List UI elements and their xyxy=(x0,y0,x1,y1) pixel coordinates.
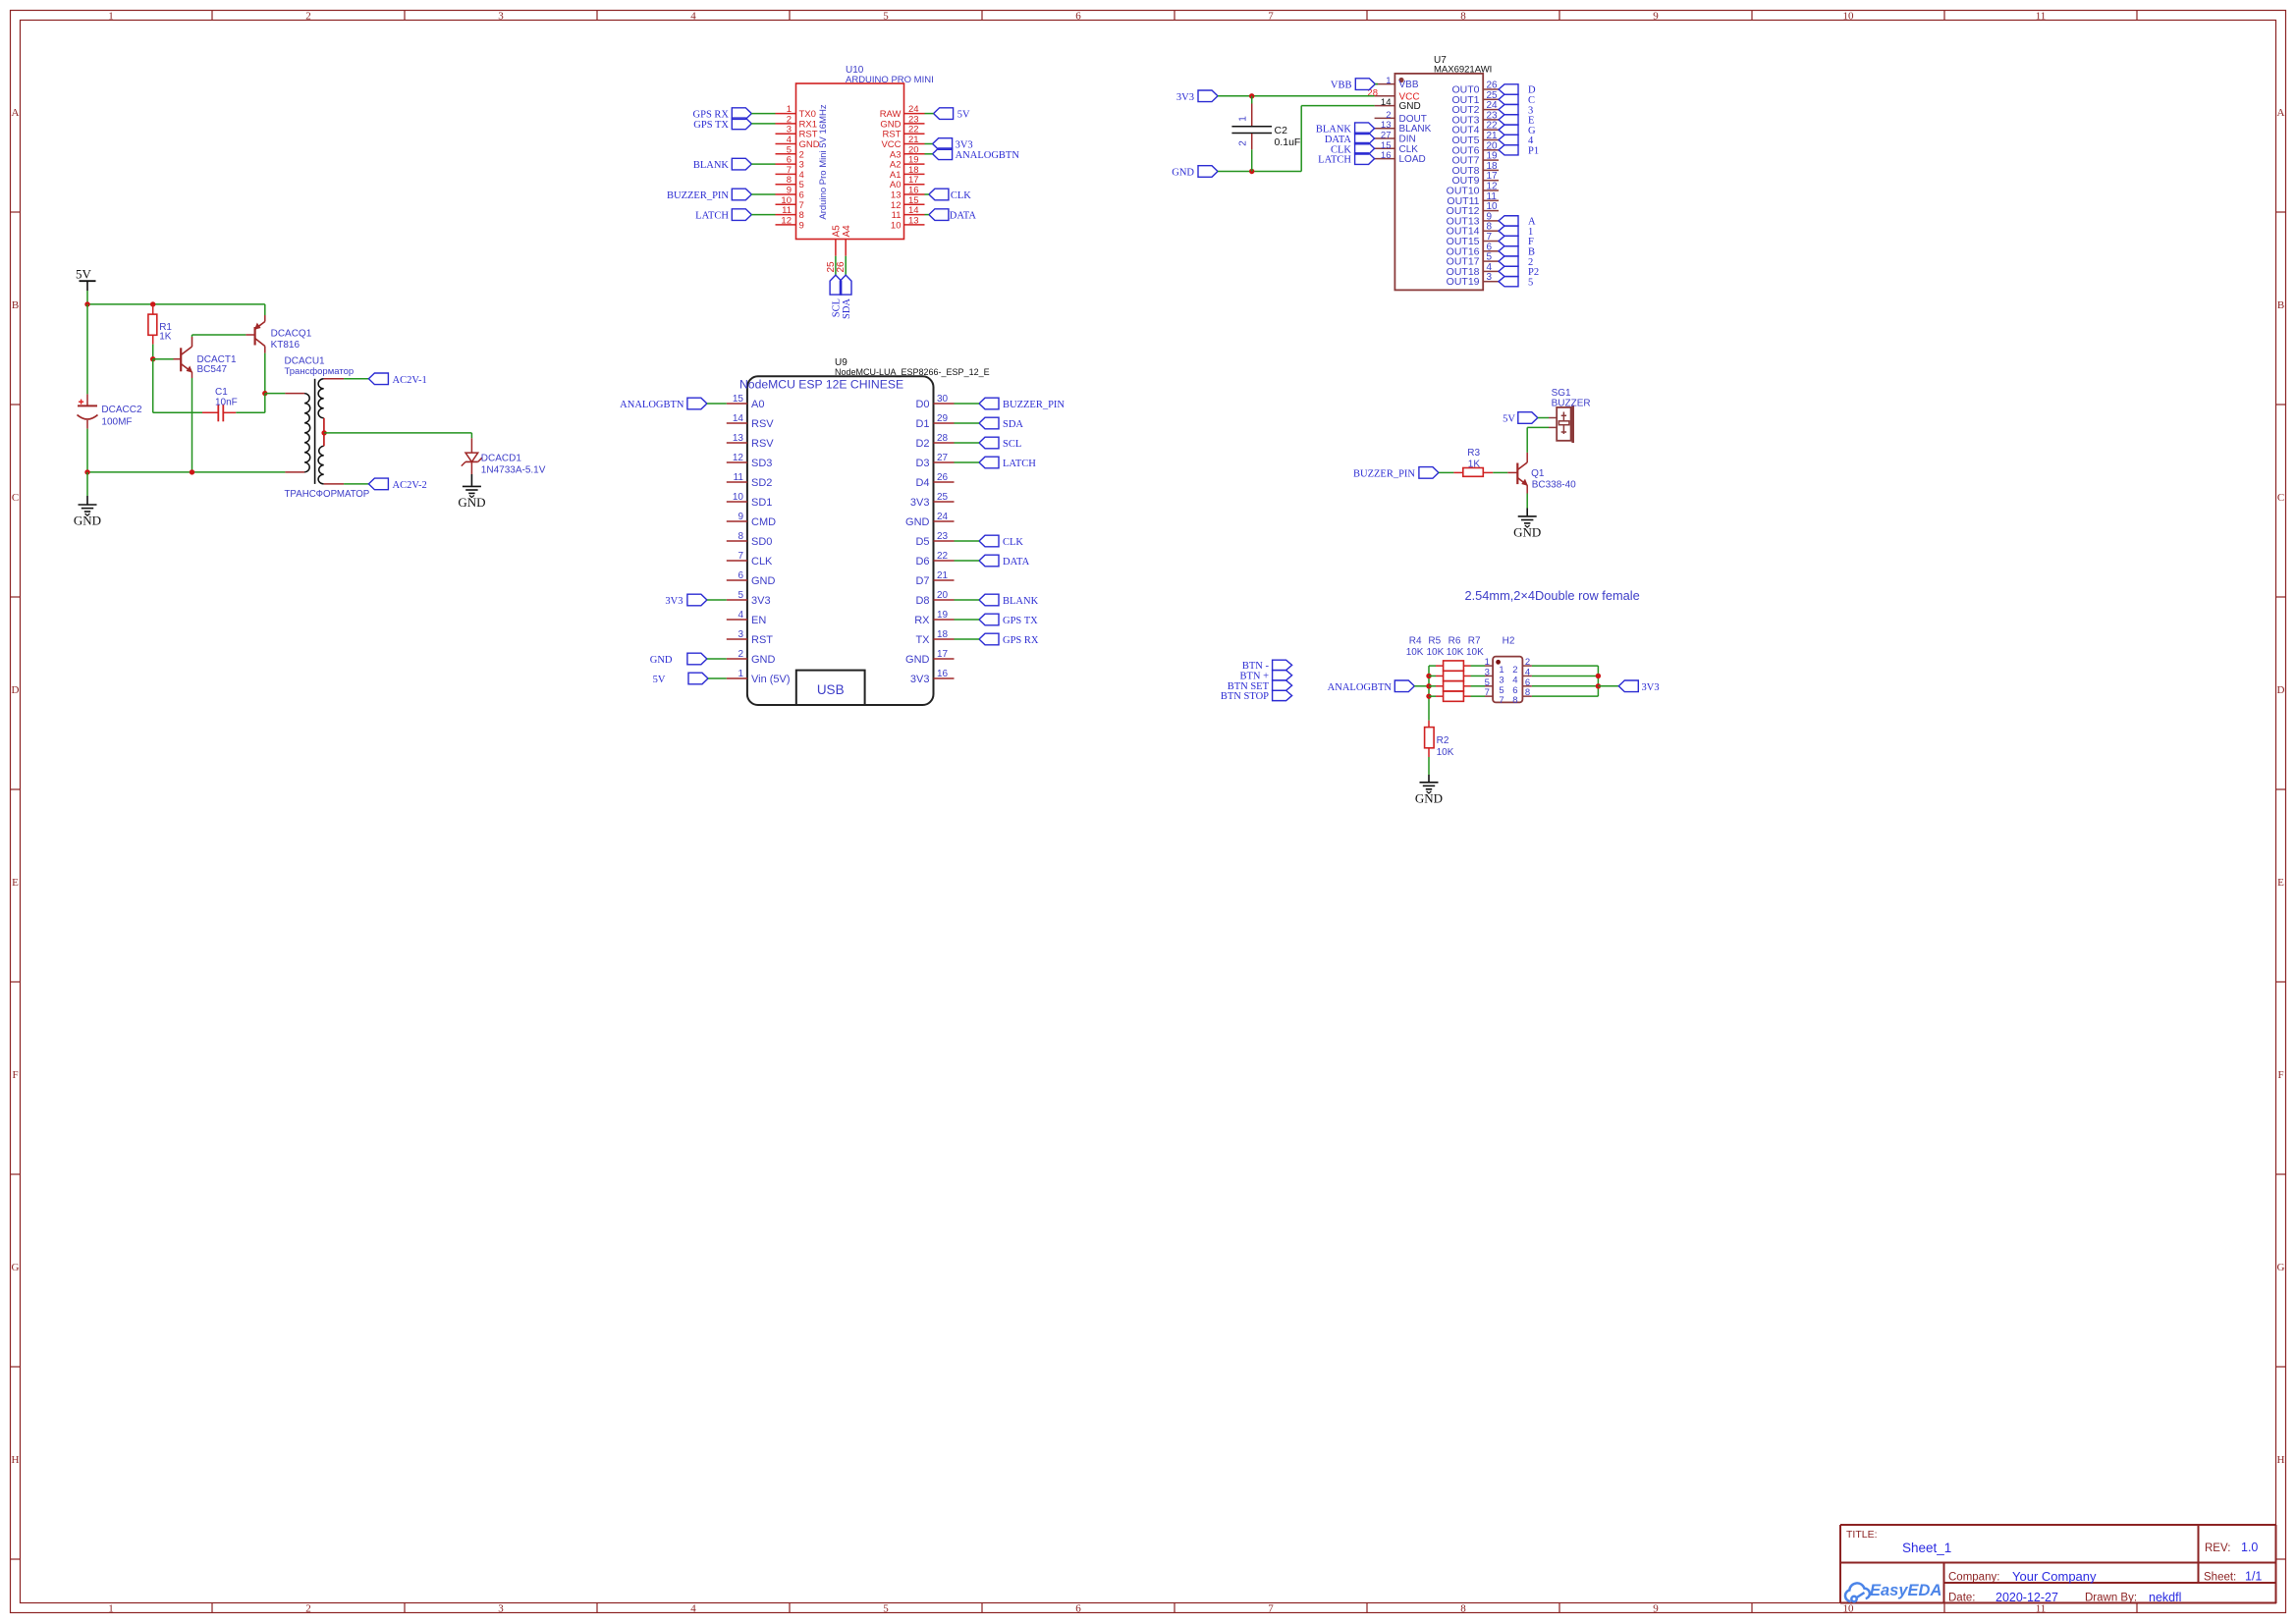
svg-text:ANALOGBTN: ANALOGBTN xyxy=(1328,682,1393,693)
svg-text:3: 3 xyxy=(1499,675,1503,685)
svg-text:R6: R6 xyxy=(1449,636,1461,647)
svg-text:LOAD: LOAD xyxy=(1399,154,1426,165)
svg-text:11: 11 xyxy=(2036,10,2047,22)
svg-text:BUZZER_PIN: BUZZER_PIN xyxy=(667,190,729,201)
svg-text:GND: GND xyxy=(1415,790,1443,805)
svg-text:5V: 5V xyxy=(957,110,970,121)
svg-text:2: 2 xyxy=(1525,657,1530,668)
svg-text:BUZZER_PIN: BUZZER_PIN xyxy=(1353,468,1415,479)
svg-text:10nF: 10nF xyxy=(215,398,238,408)
svg-text:USB: USB xyxy=(817,682,845,697)
svg-text:22: 22 xyxy=(937,551,949,562)
svg-text:EasyEDA: EasyEDA xyxy=(1870,1582,1941,1599)
svg-text:5: 5 xyxy=(883,1603,889,1615)
svg-text:0.1uF: 0.1uF xyxy=(1275,136,1301,148)
svg-text:4: 4 xyxy=(1525,667,1530,677)
svg-text:3: 3 xyxy=(1487,272,1493,283)
svg-text:GND: GND xyxy=(1172,168,1194,179)
svg-text:17: 17 xyxy=(937,649,949,660)
svg-text:E: E xyxy=(12,877,19,889)
svg-text:19: 19 xyxy=(937,610,949,621)
svg-text:P1: P1 xyxy=(1528,146,1539,157)
svg-text:D5: D5 xyxy=(915,536,929,548)
svg-text:1: 1 xyxy=(1499,665,1503,676)
svg-text:16: 16 xyxy=(1381,150,1392,161)
svg-text:AC2V-1: AC2V-1 xyxy=(393,375,427,386)
svg-text:2: 2 xyxy=(1238,140,1249,146)
svg-text:11: 11 xyxy=(2036,1603,2047,1615)
svg-text:G: G xyxy=(2277,1262,2285,1273)
svg-text:MAX6921AWI: MAX6921AWI xyxy=(1434,65,1492,76)
svg-text:D4: D4 xyxy=(915,477,929,489)
svg-text:8: 8 xyxy=(1512,695,1517,706)
svg-text:GND: GND xyxy=(905,516,930,528)
svg-text:SG1: SG1 xyxy=(1552,388,1571,399)
svg-text:6: 6 xyxy=(1525,677,1530,688)
svg-text:DCACD1: DCACD1 xyxy=(481,454,522,464)
svg-text:C: C xyxy=(12,492,19,504)
svg-text:6: 6 xyxy=(1075,1603,1081,1615)
svg-text:13: 13 xyxy=(908,215,919,226)
svg-text:10: 10 xyxy=(1843,1603,1855,1615)
svg-text:Company:: Company: xyxy=(1948,1572,1999,1584)
svg-text:H: H xyxy=(2277,1454,2285,1466)
svg-text:6: 6 xyxy=(1075,10,1081,22)
svg-text:4: 4 xyxy=(738,610,743,621)
svg-text:9: 9 xyxy=(799,220,804,231)
svg-text:3V3: 3V3 xyxy=(1642,682,1660,693)
svg-text:1K: 1K xyxy=(159,332,172,343)
svg-text:GND: GND xyxy=(751,654,776,666)
svg-text:7: 7 xyxy=(1268,10,1274,22)
svg-text:GND: GND xyxy=(1399,101,1421,112)
svg-text:BUZZER: BUZZER xyxy=(1552,399,1591,409)
svg-text:SD3: SD3 xyxy=(751,458,772,469)
svg-text:GND: GND xyxy=(751,575,776,587)
svg-text:1: 1 xyxy=(738,669,743,679)
svg-text:7: 7 xyxy=(1268,1603,1274,1615)
svg-text:BTN -: BTN - xyxy=(1242,661,1270,672)
svg-text:H: H xyxy=(12,1454,20,1466)
svg-text:10K: 10K xyxy=(1447,647,1464,658)
svg-text:3: 3 xyxy=(1485,667,1490,677)
svg-text:3V3: 3V3 xyxy=(1176,92,1194,103)
svg-text:5: 5 xyxy=(1485,677,1490,688)
svg-text:GPS TX: GPS TX xyxy=(1003,616,1038,626)
svg-text:30: 30 xyxy=(937,394,949,405)
svg-text:3: 3 xyxy=(498,1603,504,1615)
svg-text:GND: GND xyxy=(905,654,930,666)
svg-text:GND: GND xyxy=(650,655,673,666)
svg-text:CLK: CLK xyxy=(1003,537,1023,548)
svg-text:27: 27 xyxy=(937,453,949,463)
svg-text:CLK: CLK xyxy=(751,556,773,568)
svg-text:ТРАНСФОРМАТОР: ТРАНСФОРМАТОР xyxy=(285,489,370,500)
svg-text:GPS TX: GPS TX xyxy=(693,120,729,131)
svg-text:10: 10 xyxy=(891,220,902,231)
svg-text:3: 3 xyxy=(738,629,743,640)
svg-text:21: 21 xyxy=(937,570,949,581)
svg-text:11: 11 xyxy=(734,472,744,483)
svg-text:C: C xyxy=(2277,492,2284,504)
svg-text:B: B xyxy=(12,299,19,311)
svg-text:RSV: RSV xyxy=(751,418,774,430)
svg-text:5: 5 xyxy=(1528,277,1533,288)
svg-text:D: D xyxy=(2277,684,2285,696)
svg-text:RST: RST xyxy=(751,634,773,646)
svg-text:23: 23 xyxy=(937,531,949,542)
svg-text:SDA: SDA xyxy=(1003,419,1023,430)
svg-text:R5: R5 xyxy=(1428,636,1441,647)
svg-text:BTN STOP: BTN STOP xyxy=(1221,691,1269,702)
svg-text:2: 2 xyxy=(305,10,311,22)
svg-text:A0: A0 xyxy=(751,399,764,410)
svg-text:3V3: 3V3 xyxy=(910,674,930,685)
svg-text:C1: C1 xyxy=(215,387,228,398)
svg-text:4: 4 xyxy=(690,1603,696,1615)
svg-text:1: 1 xyxy=(1386,76,1391,86)
svg-text:CLK: CLK xyxy=(951,190,971,201)
svg-text:RSV: RSV xyxy=(751,438,774,450)
svg-text:Arduino Pro Mini 5V 16MHz: Arduino Pro Mini 5V 16MHz xyxy=(818,104,829,219)
svg-text:3V3: 3V3 xyxy=(910,497,930,509)
svg-text:DCACU1: DCACU1 xyxy=(285,356,326,367)
svg-text:BUZZER_PIN: BUZZER_PIN xyxy=(1003,400,1065,410)
svg-text:ARDUINO PRO MINI: ARDUINO PRO MINI xyxy=(846,75,934,85)
svg-text:BTN SET: BTN SET xyxy=(1228,681,1270,692)
svg-text:A4: A4 xyxy=(842,225,852,238)
svg-text:2: 2 xyxy=(738,649,743,660)
svg-text:1: 1 xyxy=(108,1603,114,1615)
svg-text:1K: 1K xyxy=(1468,459,1481,469)
svg-text:A: A xyxy=(12,107,20,119)
svg-text:SD1: SD1 xyxy=(751,497,772,509)
svg-text:13: 13 xyxy=(733,433,744,444)
svg-text:A: A xyxy=(2277,107,2285,119)
svg-text:Sheet:: Sheet: xyxy=(2204,1572,2236,1584)
svg-text:CMD: CMD xyxy=(751,516,776,528)
svg-text:1: 1 xyxy=(108,10,114,22)
svg-text:Drawn By:: Drawn By: xyxy=(2085,1593,2137,1604)
svg-text:16: 16 xyxy=(937,669,949,679)
svg-text:Date:: Date: xyxy=(1948,1593,1976,1604)
svg-text:14: 14 xyxy=(733,413,744,424)
svg-text:SDA: SDA xyxy=(842,298,852,319)
svg-text:26: 26 xyxy=(937,472,949,483)
svg-text:100MF: 100MF xyxy=(101,417,132,428)
svg-text:KT816: KT816 xyxy=(271,340,301,351)
svg-text:NodeMCU-LUA_ESP8266-_ESP_12_E: NodeMCU-LUA_ESP8266-_ESP_12_E xyxy=(835,367,990,377)
svg-text:15: 15 xyxy=(733,394,744,405)
svg-text:R4: R4 xyxy=(1409,636,1422,647)
svg-text:D: D xyxy=(12,684,20,696)
svg-text:D3: D3 xyxy=(915,458,929,469)
svg-text:NodeMCU ESP 12E CHINESE: NodeMCU ESP 12E CHINESE xyxy=(739,378,903,392)
svg-text:7: 7 xyxy=(1485,687,1490,698)
svg-text:AC2V-2: AC2V-2 xyxy=(393,480,427,491)
svg-text:8: 8 xyxy=(1460,1603,1466,1615)
svg-text:BC547: BC547 xyxy=(197,364,228,375)
svg-text:B: B xyxy=(2277,299,2284,311)
svg-text:DATA: DATA xyxy=(950,211,977,222)
svg-text:2020-12-27: 2020-12-27 xyxy=(1995,1591,2058,1604)
svg-text:TITLE:: TITLE: xyxy=(1846,1529,1878,1541)
svg-text:TX: TX xyxy=(915,634,930,646)
svg-text:5: 5 xyxy=(1499,685,1503,696)
svg-text:24: 24 xyxy=(937,512,949,522)
svg-text:10K: 10K xyxy=(1427,647,1445,658)
svg-text:EN: EN xyxy=(751,615,766,626)
svg-text:Q1: Q1 xyxy=(1531,468,1545,479)
svg-text:SCL: SCL xyxy=(1003,439,1021,450)
svg-text:G: G xyxy=(12,1262,20,1273)
svg-text:5: 5 xyxy=(883,10,889,22)
svg-text:10K: 10K xyxy=(1406,647,1424,658)
svg-text:H2: H2 xyxy=(1503,636,1515,647)
svg-text:LATCH: LATCH xyxy=(695,211,729,222)
svg-text:GPS RX: GPS RX xyxy=(1003,635,1039,646)
svg-text:28: 28 xyxy=(937,433,949,444)
svg-text:Your Company: Your Company xyxy=(2012,1569,2097,1584)
svg-text:SD0: SD0 xyxy=(751,536,772,548)
svg-text:F: F xyxy=(12,1069,18,1081)
svg-text:2: 2 xyxy=(305,1603,311,1615)
svg-text:Vin (5V): Vin (5V) xyxy=(751,674,791,685)
svg-text:C2: C2 xyxy=(1275,125,1288,136)
svg-text:Sheet_1: Sheet_1 xyxy=(1902,1541,1951,1555)
svg-text:Трансформатор: Трансформатор xyxy=(285,366,355,377)
svg-text:14: 14 xyxy=(1381,97,1392,108)
svg-text:D6: D6 xyxy=(915,556,929,568)
svg-text:LATCH: LATCH xyxy=(1003,459,1036,469)
svg-text:GND: GND xyxy=(74,514,101,528)
svg-text:BLANK: BLANK xyxy=(1003,596,1039,607)
svg-text:8: 8 xyxy=(1525,687,1530,698)
svg-text:4: 4 xyxy=(690,10,696,22)
svg-text:5V: 5V xyxy=(76,267,92,282)
svg-text:10K: 10K xyxy=(1437,747,1454,758)
svg-text:18: 18 xyxy=(937,629,949,640)
svg-text:D0: D0 xyxy=(915,399,929,410)
svg-text:4: 4 xyxy=(1512,675,1517,685)
svg-text:1/1: 1/1 xyxy=(2245,1570,2262,1584)
svg-text:REV:: REV: xyxy=(2205,1542,2230,1554)
svg-text:20: 20 xyxy=(937,590,949,601)
svg-text:GND: GND xyxy=(1513,524,1541,539)
svg-text:2.54mm,2×4Double row female: 2.54mm,2×4Double row female xyxy=(1465,588,1640,603)
svg-text:5V: 5V xyxy=(653,675,666,685)
svg-text:DATA: DATA xyxy=(1003,557,1030,568)
svg-text:1: 1 xyxy=(1238,116,1249,122)
svg-text:6: 6 xyxy=(1512,685,1517,696)
svg-text:LATCH: LATCH xyxy=(1318,155,1351,166)
svg-text:BLANK: BLANK xyxy=(693,160,730,171)
svg-text:ANALOGBTN: ANALOGBTN xyxy=(620,400,684,410)
svg-text:3: 3 xyxy=(498,10,504,22)
svg-text:10: 10 xyxy=(733,492,744,503)
svg-text:9: 9 xyxy=(738,512,743,522)
svg-text:SD2: SD2 xyxy=(751,477,772,489)
svg-text:OUT19: OUT19 xyxy=(1447,276,1480,288)
svg-text:8: 8 xyxy=(738,531,743,542)
svg-text:10K: 10K xyxy=(1466,647,1484,658)
svg-text:DCACQ1: DCACQ1 xyxy=(271,329,312,340)
svg-text:12: 12 xyxy=(733,453,744,463)
svg-text:25: 25 xyxy=(937,492,949,503)
svg-text:D1: D1 xyxy=(915,418,929,430)
svg-text:VBB: VBB xyxy=(1399,80,1419,90)
svg-text:GND: GND xyxy=(458,495,485,510)
svg-text:BTN +: BTN + xyxy=(1239,671,1269,681)
svg-text:3V3: 3V3 xyxy=(751,595,771,607)
svg-text:BC338-40: BC338-40 xyxy=(1532,480,1576,491)
svg-text:R3: R3 xyxy=(1467,448,1480,459)
svg-text:1N4733A-5.1V: 1N4733A-5.1V xyxy=(481,465,546,476)
svg-text:10: 10 xyxy=(1843,10,1855,22)
svg-text:nekdfl: nekdfl xyxy=(2149,1591,2181,1604)
svg-text:D2: D2 xyxy=(915,438,929,450)
svg-text:R2: R2 xyxy=(1437,735,1449,746)
svg-text:D7: D7 xyxy=(915,575,929,587)
svg-text:12: 12 xyxy=(781,215,792,226)
svg-text:1.0: 1.0 xyxy=(2241,1541,2258,1554)
svg-text:9: 9 xyxy=(1653,10,1659,22)
svg-text:6: 6 xyxy=(738,570,743,581)
svg-text:VBB: VBB xyxy=(1331,81,1352,91)
svg-text:5V: 5V xyxy=(1503,414,1515,425)
svg-text:9: 9 xyxy=(1653,1603,1659,1615)
svg-text:7: 7 xyxy=(1499,695,1503,706)
svg-text:R7: R7 xyxy=(1468,636,1481,647)
svg-text:7: 7 xyxy=(738,551,743,562)
svg-text:2: 2 xyxy=(1512,665,1517,676)
svg-text:RX: RX xyxy=(914,615,930,626)
svg-text:5: 5 xyxy=(738,590,743,601)
svg-text:DCACC2: DCACC2 xyxy=(101,405,142,415)
svg-text:D8: D8 xyxy=(915,595,929,607)
svg-text:3V3: 3V3 xyxy=(665,596,683,607)
svg-text:E: E xyxy=(2277,877,2284,889)
svg-text:ANALOGBTN: ANALOGBTN xyxy=(956,150,1020,161)
svg-text:1: 1 xyxy=(1485,657,1490,668)
svg-text:29: 29 xyxy=(937,413,949,424)
svg-text:F: F xyxy=(2277,1069,2283,1081)
svg-text:8: 8 xyxy=(1460,10,1466,22)
